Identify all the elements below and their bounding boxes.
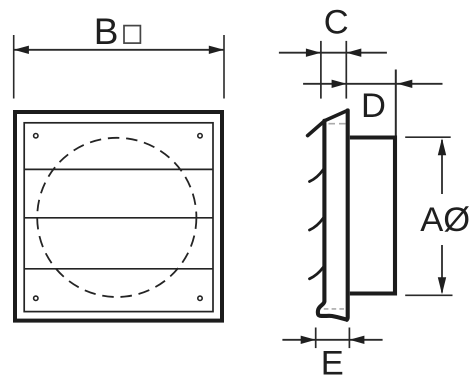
louver line 1	[24, 168, 213, 170]
label B square symbol	[124, 26, 140, 43]
profile louver slat 4	[310, 267, 324, 279]
front view outer frame	[15, 112, 222, 321]
profile front face and foot	[318, 121, 347, 320]
dimension C extension line left	[320, 41, 322, 99]
svg-text:E: E	[321, 344, 344, 382]
svg-text:AØ: AØ	[420, 201, 470, 239]
screw hole top-left	[34, 134, 38, 138]
front view inner panel	[24, 123, 213, 312]
dimension E extension line left	[315, 328, 317, 349]
dimension E line	[282, 339, 382, 341]
dimension B extension line left	[13, 35, 15, 99]
dimension E arrowhead right	[349, 336, 364, 344]
dimension D arrowhead left	[332, 80, 347, 88]
screw hole bottom-left	[34, 296, 38, 300]
louver line 2	[24, 217, 213, 219]
louver line 3	[24, 268, 213, 270]
duct collar	[350, 138, 395, 294]
dimension B extension line right	[223, 35, 225, 99]
dimension D extension line	[395, 70, 397, 137]
dimension B arrowhead right	[209, 46, 224, 54]
dimension D arrowhead right	[397, 80, 412, 88]
dimension A line upper	[441, 140, 443, 194]
dimension C arrowhead left	[306, 49, 321, 57]
dimension A arrowhead up	[438, 138, 446, 155]
dashed duct circle	[37, 138, 196, 297]
profile hidden line bottom	[324, 308, 345, 310]
svg-text:B: B	[94, 11, 119, 52]
svg-text:D: D	[361, 87, 386, 125]
dimension D line	[303, 83, 442, 85]
dimension B line	[14, 49, 224, 51]
dimension C extension line right	[345, 41, 347, 99]
profile back face	[345, 110, 350, 319]
dimension E arrowhead left	[301, 336, 316, 344]
screw hole bottom-right	[198, 296, 202, 300]
dimension E extension line right	[348, 328, 350, 349]
screw hole top-right	[198, 134, 202, 138]
dimension A line lower	[441, 245, 443, 293]
dimension A arrowhead down	[438, 277, 446, 294]
dimension C arrowhead right	[346, 49, 361, 57]
svg-text:C: C	[324, 4, 349, 42]
profile hidden line top	[329, 123, 347, 125]
profile louver slat 3	[310, 218, 324, 230]
dimension B arrowhead left	[14, 46, 29, 54]
dimension A extension line top	[405, 136, 451, 138]
dimension C line	[279, 52, 387, 54]
profile top peak with louver	[308, 110, 348, 135]
profile louver slat 2	[310, 170, 324, 182]
dimension A extension line bottom	[405, 294, 452, 296]
